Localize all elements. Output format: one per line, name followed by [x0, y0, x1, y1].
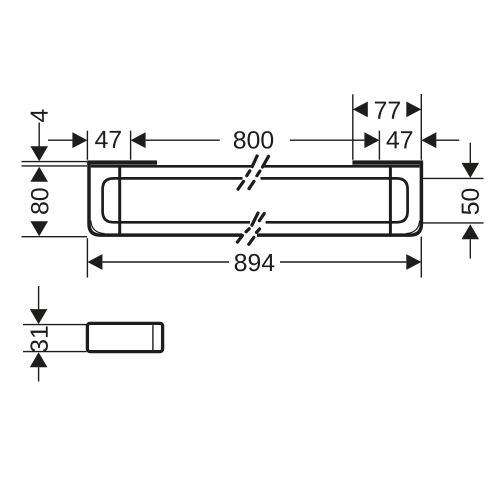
seam line left post — [118, 165, 121, 237]
bar inner profile (rounded rectangle) — [103, 178, 408, 222]
dim 47 right: tail line — [436, 139, 459, 141]
dim 31: extension line bottom — [23, 351, 87, 353]
dim 800: dim line left segment — [146, 139, 220, 141]
dim 31: tail line top — [38, 286, 40, 309]
dim 31: arrow up — [30, 352, 48, 367]
break gap white cuts — [242, 176, 266, 238]
dim 4: label "4" — [31, 109, 48, 122]
dim 4: arrow down — [30, 146, 48, 161]
dim 50: tail line bottom — [469, 239, 471, 258]
dim 50: extension line top — [422, 177, 484, 179]
dim 31: extension line top — [23, 324, 87, 326]
dim 77: arrow left — [353, 102, 368, 118]
dim 894: extension line right — [420, 237, 422, 278]
dim 31: label "31" — [30, 326, 48, 351]
dim 50: label "50" — [461, 189, 479, 215]
dim 894: label "894" — [235, 254, 275, 272]
side view: outer rectangle — [87, 323, 162, 351]
dim 47 right: label "47" — [387, 131, 413, 148]
dim 800: label "800" — [234, 131, 273, 149]
dim 47 left: arrow right — [72, 132, 87, 148]
dim 894: arrow left — [87, 254, 102, 270]
fillet arc bottom-right corner — [406, 221, 420, 234]
dim 50: arrow down — [462, 163, 480, 178]
dim 31: arrow down — [30, 309, 48, 324]
dim 4: extension line lower — [22, 165, 88, 167]
dim 50: extension line bottom — [422, 222, 484, 224]
dim 80: label "80" — [31, 188, 49, 214]
dim 894: dim line left segment — [102, 261, 229, 263]
bar top outline line, left of break — [91, 165, 252, 168]
bar top outline line, right of break — [263, 165, 420, 168]
dim 894: arrow right — [406, 254, 421, 270]
dim 80: bottom extension line — [22, 236, 88, 238]
fillet arc bottom-left corner — [91, 221, 105, 234]
dim 800: dim line right segment — [290, 139, 365, 141]
dim 4: extension line upper — [22, 161, 88, 163]
break mark slashes top — [238, 156, 269, 189]
dim 47 left: label "47" — [95, 131, 121, 148]
dim 77: arrow right — [406, 102, 421, 118]
dim 47 left: extension line left — [86, 131, 88, 160]
dim 50: tail line top — [469, 143, 471, 163]
dim 47 right: arrow left outside — [421, 132, 436, 148]
wall plate left (edge view, thick) — [87, 160, 157, 164]
break mark slashes bottom — [237, 213, 264, 244]
dim 47 left: tail line — [48, 139, 72, 141]
seam line right post — [389, 165, 392, 237]
dim 4: tail line — [38, 123, 40, 147]
dim 47 left: extension line right — [130, 131, 132, 160]
dim 80: arrow down — [30, 221, 48, 236]
dim 800: right arrow — [364, 132, 379, 148]
bar outer contour: left post, bottom rail, right post — [89, 161, 421, 236]
dim 50: arrow up — [462, 224, 480, 239]
dim 894: dim line right segment — [280, 261, 406, 263]
dim 800: left arrow (shared with 47 left) — [131, 132, 146, 148]
dim 894: extension line left — [86, 238, 88, 277]
side view: end cap seam line — [152, 325, 154, 350]
dim 77: extension line right (shared with 47 right) — [420, 94, 422, 160]
dim 4: arrow up (shared with dim 80) — [30, 167, 48, 182]
wall plate right (edge view, thick) — [352, 160, 423, 164]
dim 77: label "77" — [375, 102, 400, 119]
dim 31: tail line bottom — [38, 367, 40, 381]
dim 47 right: extension line left — [378, 131, 380, 160]
dim 77: extension line left — [352, 94, 354, 160]
